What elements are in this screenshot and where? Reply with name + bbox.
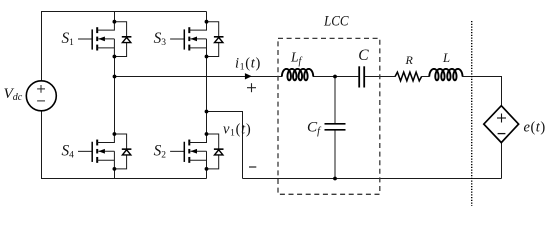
- svg-text:LCC: LCC: [323, 13, 349, 30]
- svg-text:e(t): e(t): [524, 119, 546, 135]
- current arrow i1(t): [245, 73, 252, 79]
- svg-text:S3: S3: [154, 30, 167, 48]
- transistor S2 (NMOS with body diode): [170, 132, 223, 171]
- wire output plus (i1): [115, 76, 283, 78]
- wire left leg lower: [41, 111, 43, 179]
- wire S1 drain drop: [114, 12, 116, 22]
- wire Cf bottom branch: [334, 130, 336, 179]
- svg-text:v1(t): v1(t): [223, 121, 251, 138]
- svg-text:Cf: Cf: [307, 118, 322, 137]
- svg-text:S4: S4: [62, 143, 75, 161]
- wire Cf top branch: [334, 77, 336, 124]
- wire right leg midpoint: [206, 57, 208, 135]
- dependent voltage source e(t) (diamond): [484, 106, 519, 143]
- wire left leg midpoint: [114, 57, 116, 135]
- wire S2 source drop: [206, 169, 208, 179]
- svg-text:Vdc: Vdc: [4, 85, 23, 103]
- wire output minus (v1): [207, 112, 243, 179]
- wire S3 drain drop: [206, 12, 208, 22]
- wire R to L: [421, 76, 429, 78]
- wire S4 source drop: [114, 169, 116, 179]
- transistor S1 (NMOS with body diode): [78, 20, 131, 59]
- inductor L: [429, 69, 462, 80]
- svg-text:L: L: [442, 51, 450, 65]
- transistor S4 (NMOS with body diode): [78, 132, 131, 171]
- dotted separator line: [471, 21, 473, 206]
- node: Cf top junction dot: [333, 75, 337, 79]
- svg-text:i1(t): i1(t): [235, 55, 261, 72]
- svg-text:S2: S2: [154, 143, 167, 161]
- wire top rail: [41, 11, 207, 13]
- resistor R: [395, 72, 422, 81]
- node: Cf bottom junction dot: [333, 177, 337, 181]
- svg-text:R: R: [405, 53, 414, 67]
- transistor S3 (NMOS with body diode): [170, 20, 223, 59]
- capacitor C: [359, 66, 364, 87]
- polarity + of v1 (top): [247, 83, 256, 92]
- wire Lf to Cf node: [313, 76, 359, 78]
- wire e(t) bottom: [501, 143, 503, 179]
- node: left-leg midpoint junction dot: [113, 75, 117, 79]
- capacitor Cf: [325, 124, 346, 130]
- LCC compensation network dashed box: [278, 38, 380, 194]
- wire bottom rail: [41, 178, 207, 180]
- polarity - of v1 (bottom): [249, 166, 256, 168]
- wire left leg upper: [41, 12, 43, 81]
- svg-text:Lf: Lf: [290, 50, 303, 68]
- node: right-leg midpoint junction dot: [205, 110, 209, 114]
- wire L to e(t) corner: [462, 77, 501, 106]
- svg-text:S1: S1: [62, 30, 75, 48]
- voltage source Vdc: [26, 81, 56, 111]
- wire bottom return: [243, 178, 502, 180]
- svg-text:C: C: [358, 47, 369, 64]
- inductor Lf: [282, 69, 313, 80]
- wire C to R: [365, 76, 395, 78]
